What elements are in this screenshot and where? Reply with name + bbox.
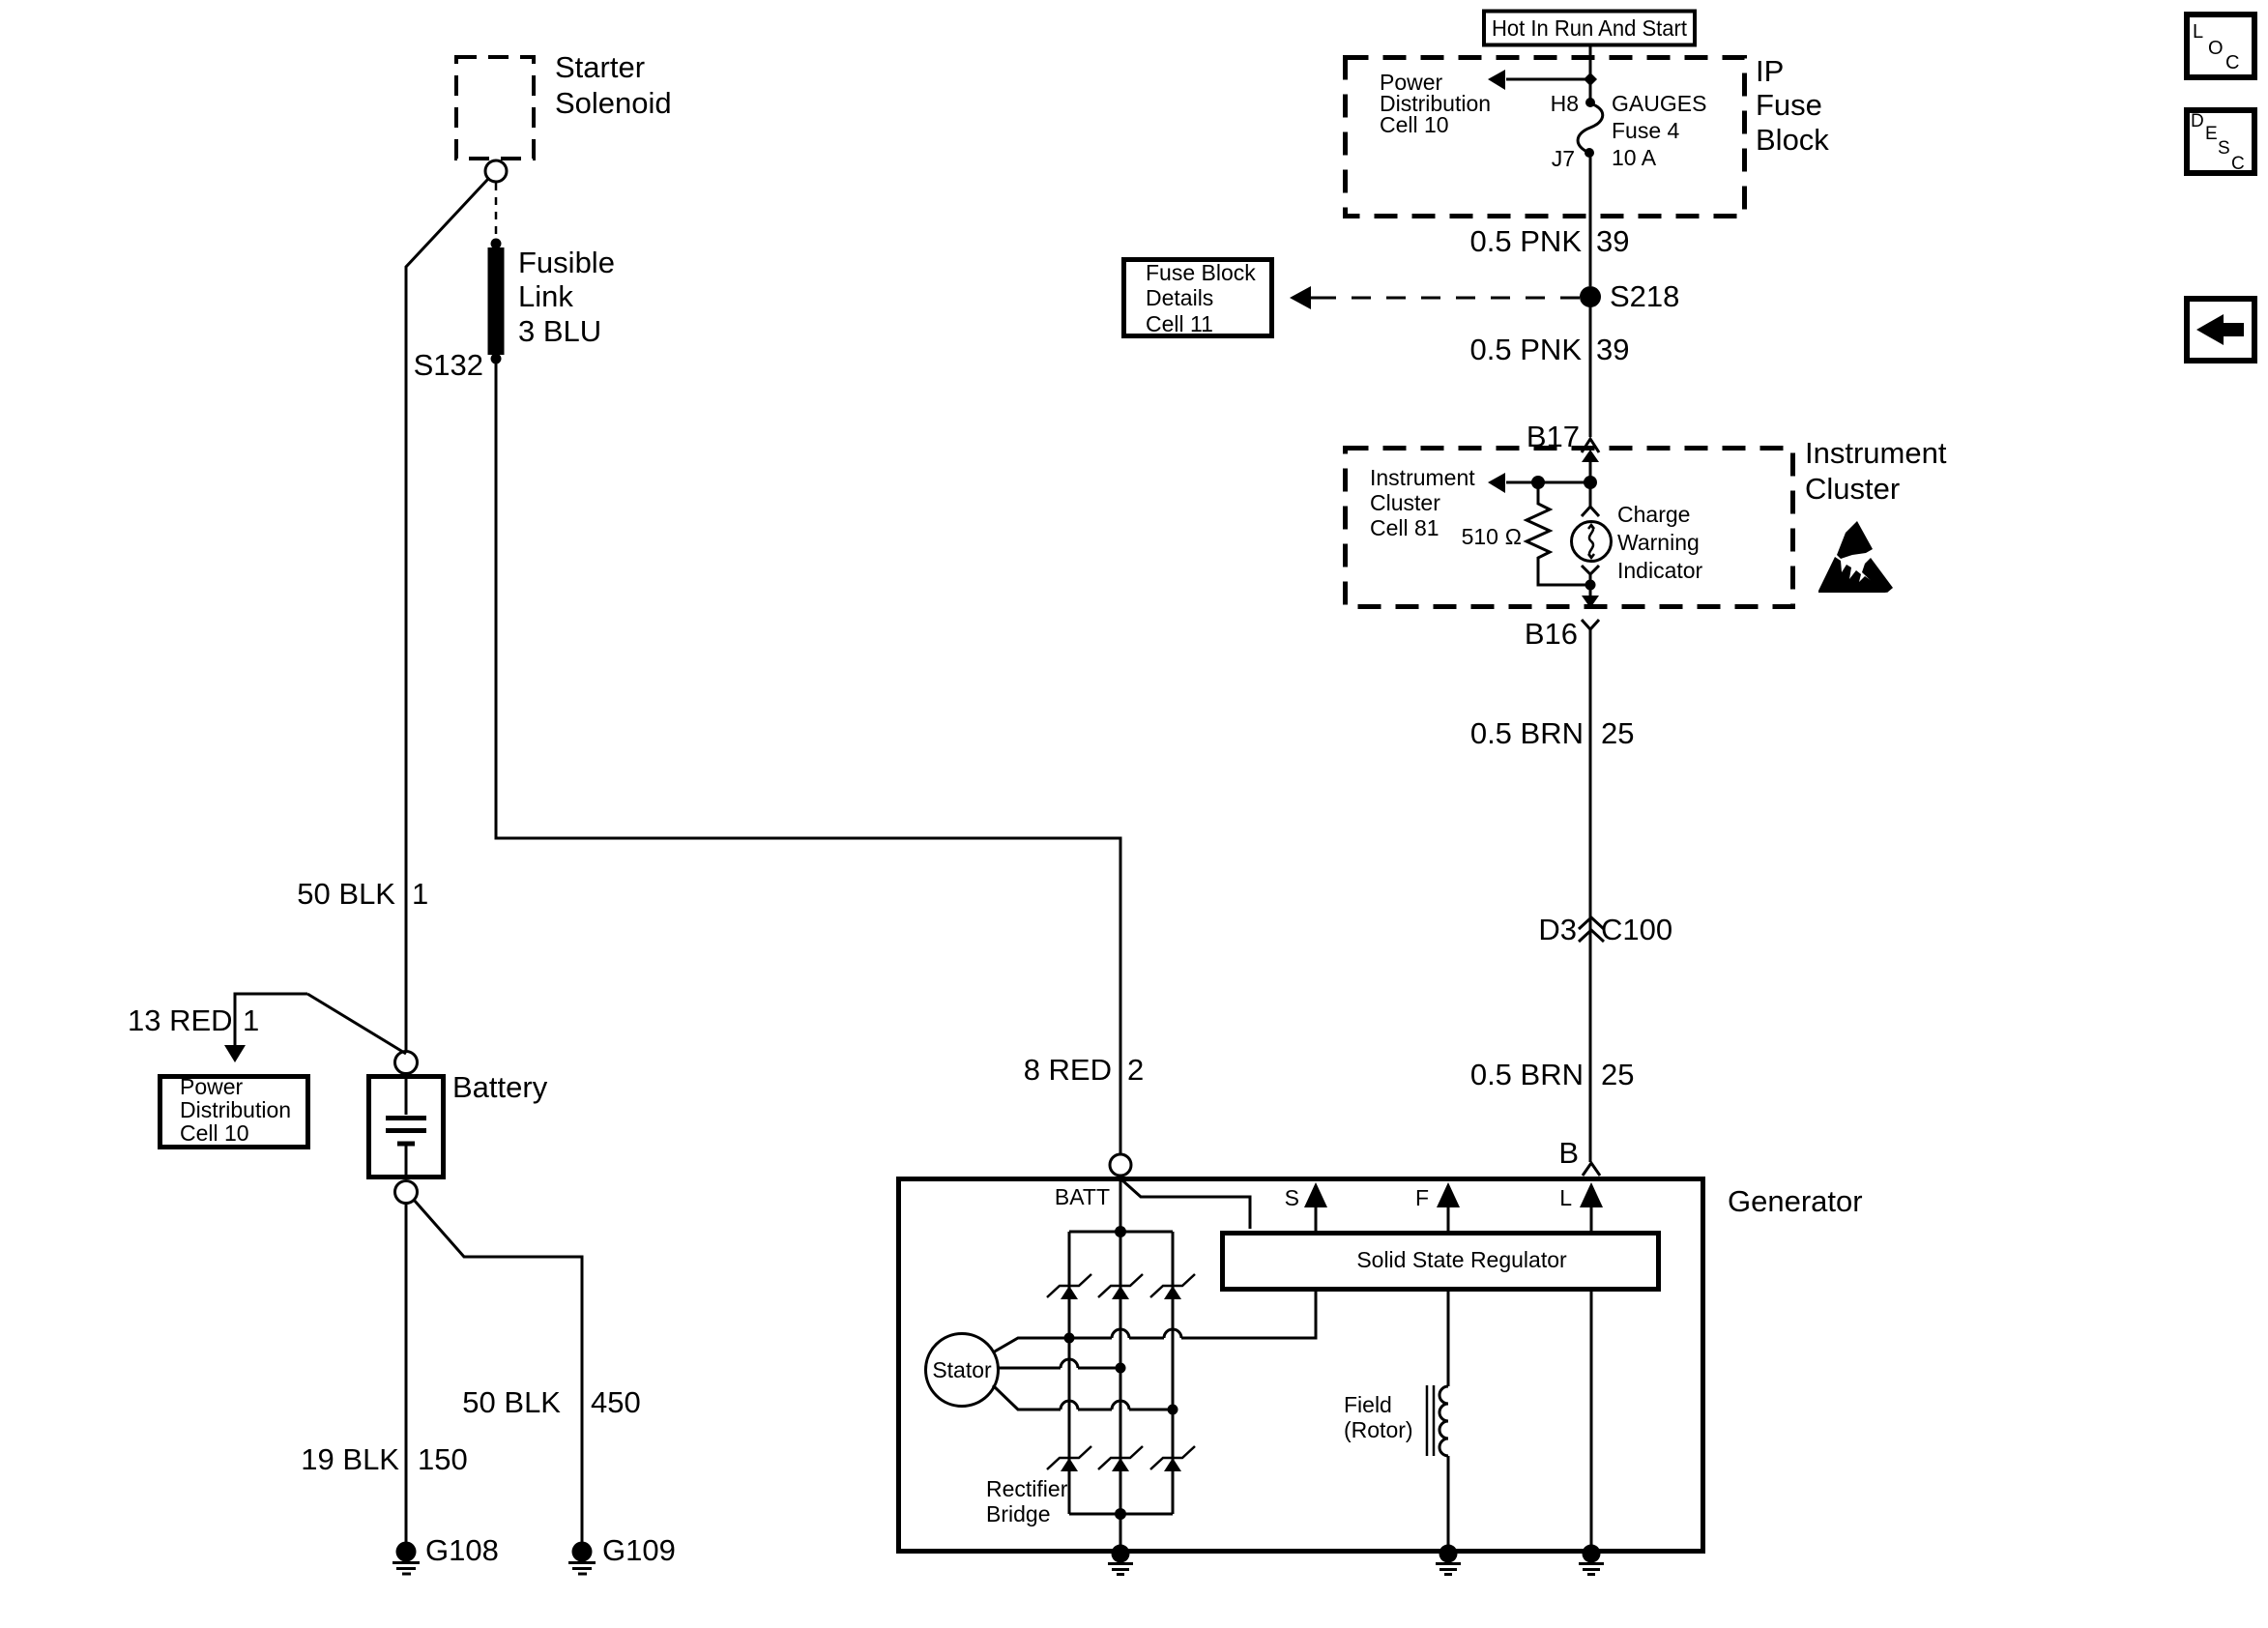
wire label 8 RED 2 bbox=[1024, 1053, 1145, 1087]
junction (phase 2 / centre leg) bbox=[1116, 1363, 1126, 1374]
starter solenoid box bbox=[456, 50, 672, 159]
wire (stator phase 3) bbox=[993, 1385, 1173, 1410]
wire label 0.5 BRN 25 (upper) bbox=[1470, 716, 1635, 750]
svg-text:Indicator: Indicator bbox=[1617, 558, 1703, 583]
diode D5 bbox=[1098, 1446, 1143, 1471]
svg-text:25: 25 bbox=[1601, 1058, 1634, 1091]
svg-text:Cluster: Cluster bbox=[1805, 472, 1900, 506]
rectifier bridge rails bbox=[1069, 1232, 1173, 1514]
IP fuse block box bbox=[1346, 54, 1830, 217]
diode D6 bbox=[1150, 1446, 1195, 1471]
svg-text:L: L bbox=[1559, 1185, 1572, 1210]
junction (phase 3 / right leg) bbox=[1168, 1405, 1178, 1415]
wire (dashed drop from solenoid terminal) bbox=[495, 183, 498, 242]
ground (L) bbox=[1579, 1545, 1604, 1575]
svg-text:E: E bbox=[2205, 124, 2218, 144]
junction node (lamp tap) bbox=[1584, 476, 1597, 489]
svg-text:Rectifier: Rectifier bbox=[986, 1476, 1068, 1501]
ground (rectifier bridge) bbox=[1108, 1545, 1133, 1575]
wire (BATT vertical through rectifier bridge) bbox=[1119, 1176, 1122, 1551]
wire (B17 into cluster) bbox=[1582, 450, 1599, 482]
svg-text:39: 39 bbox=[1596, 224, 1629, 258]
svg-text:Charge: Charge bbox=[1617, 502, 1690, 527]
node S132 bbox=[414, 348, 502, 382]
LOC button bbox=[2187, 15, 2254, 77]
pin B16 bbox=[1525, 617, 1599, 651]
diode D2 bbox=[1098, 1274, 1143, 1299]
rectifier bridge label bbox=[986, 1476, 1068, 1526]
pin F bbox=[1415, 1182, 1460, 1231]
svg-text:C: C bbox=[2225, 52, 2239, 73]
svg-text:50 BLK: 50 BLK bbox=[297, 877, 395, 911]
svg-text:Bridge: Bridge bbox=[986, 1501, 1050, 1526]
wire (S132 to generator BATT, 8 RED) bbox=[496, 363, 1120, 1153]
ground (field) bbox=[1436, 1545, 1461, 1575]
battery negative terminal bbox=[395, 1181, 418, 1204]
svg-text:39: 39 bbox=[1596, 333, 1629, 366]
solid state regulator U1 bbox=[1223, 1234, 1659, 1290]
svg-text:0.5 PNK: 0.5 PNK bbox=[1470, 224, 1583, 258]
instrument cluster box bbox=[1346, 436, 1947, 607]
svg-text:Cluster: Cluster bbox=[1370, 490, 1440, 515]
svg-text:S132: S132 bbox=[414, 348, 483, 382]
svg-text:13 RED: 13 RED bbox=[128, 1003, 233, 1037]
svg-text:G108: G108 bbox=[425, 1533, 499, 1567]
connector D3 C100 bbox=[1538, 913, 1672, 946]
svg-text:Instrument: Instrument bbox=[1805, 436, 1947, 470]
svg-text:S: S bbox=[2218, 138, 2230, 159]
junction node (lamp/resistor join) bbox=[1585, 580, 1596, 591]
svg-text:Details: Details bbox=[1146, 285, 1213, 310]
back arrow button bbox=[2187, 299, 2254, 361]
wire (battery negative to G108, 19 BLK) bbox=[405, 1204, 408, 1543]
svg-text:Power: Power bbox=[180, 1074, 244, 1099]
wire (dashed reference arrow to fuse block details) bbox=[1290, 286, 1580, 309]
svg-text:50 BLK: 50 BLK bbox=[462, 1385, 561, 1419]
svg-text:1: 1 bbox=[243, 1003, 259, 1037]
svg-text:1: 1 bbox=[412, 877, 428, 911]
svg-text:Distribution: Distribution bbox=[180, 1097, 291, 1122]
wire (B16 to generator L, 0.5 BRN) bbox=[1589, 636, 1592, 1162]
svg-text:510 Ω: 510 Ω bbox=[1462, 524, 1522, 549]
svg-text:GAUGES: GAUGES bbox=[1612, 91, 1706, 116]
wire label 50 BLK 450 bbox=[462, 1385, 640, 1419]
generator BATT terminal bbox=[1055, 1154, 1131, 1209]
svg-text:Field: Field bbox=[1344, 1392, 1392, 1417]
svg-text:O: O bbox=[2208, 38, 2224, 59]
wire (cluster output arrow) bbox=[1582, 585, 1599, 608]
wire label 13 RED 1 with arrow to Power Distribution bbox=[128, 994, 406, 1062]
svg-text:F: F bbox=[1415, 1185, 1429, 1210]
wire (solenoid to battery positive, 50 BLK) bbox=[406, 179, 488, 1052]
svg-text:8 RED: 8 RED bbox=[1024, 1053, 1112, 1087]
svg-text:Hot In Run And Start: Hot In Run And Start bbox=[1492, 15, 1688, 41]
pin B (generator) bbox=[1558, 1136, 1600, 1176]
svg-text:0.5 BRN: 0.5 BRN bbox=[1470, 716, 1584, 750]
svg-text:0.5 BRN: 0.5 BRN bbox=[1470, 1058, 1584, 1091]
svg-text:B16: B16 bbox=[1525, 617, 1578, 651]
svg-text:Solid State Regulator: Solid State Regulator bbox=[1356, 1247, 1567, 1272]
svg-text:19 BLK: 19 BLK bbox=[301, 1442, 399, 1476]
svg-text:Stator: Stator bbox=[932, 1357, 992, 1382]
svg-text:J7: J7 bbox=[1552, 146, 1575, 171]
hot in run and start box bbox=[1484, 12, 1695, 45]
svg-text:Fuse Block: Fuse Block bbox=[1146, 260, 1256, 285]
wire label 50 BLK 1 bbox=[297, 877, 428, 911]
wire (stator phase 2) bbox=[998, 1359, 1120, 1368]
instrument cluster cell 81 reference bbox=[1370, 465, 1475, 540]
wire (fuse output, 0.5 PNK) bbox=[1589, 155, 1592, 286]
svg-text:10 A: 10 A bbox=[1612, 145, 1657, 170]
wire (hot feed into fuse block) bbox=[1589, 46, 1592, 101]
pin J7 bbox=[1552, 146, 1594, 171]
svg-text:150: 150 bbox=[418, 1442, 468, 1476]
svg-text:G109: G109 bbox=[602, 1533, 676, 1567]
svg-text:IP: IP bbox=[1756, 54, 1784, 88]
svg-text:25: 25 bbox=[1601, 716, 1634, 750]
wire (battery negative to G109, 50 BLK) bbox=[414, 1200, 582, 1543]
ground G108 bbox=[393, 1533, 499, 1574]
resistor 510 ohm bbox=[1462, 482, 1585, 585]
svg-text:Cell 11: Cell 11 bbox=[1146, 311, 1213, 336]
wire (L through generator) bbox=[1590, 1292, 1593, 1551]
pin B17 bbox=[1527, 420, 1599, 453]
svg-text:B: B bbox=[1558, 1136, 1579, 1170]
junction (phase 1 / left leg) bbox=[1064, 1333, 1075, 1344]
wire (stator phase 1 to S sense) bbox=[993, 1292, 1316, 1352]
starter solenoid terminal bbox=[485, 160, 507, 182]
stator winding bbox=[926, 1334, 999, 1407]
diode D4 bbox=[1047, 1446, 1091, 1471]
svg-text:(Rotor): (Rotor) bbox=[1344, 1417, 1413, 1442]
diode D3 bbox=[1150, 1274, 1195, 1299]
svg-text:BATT: BATT bbox=[1055, 1184, 1110, 1209]
svg-text:Fuse: Fuse bbox=[1756, 88, 1822, 122]
svg-text:Starter: Starter bbox=[555, 50, 645, 84]
svg-text:Link: Link bbox=[518, 279, 573, 313]
svg-text:Battery: Battery bbox=[452, 1070, 548, 1104]
svg-text:C: C bbox=[2231, 154, 2245, 174]
field rotor coil bbox=[1344, 1292, 1448, 1551]
fusible link FL 3 BLU bbox=[488, 246, 615, 355]
diode D1 bbox=[1047, 1274, 1091, 1299]
svg-text:Solenoid: Solenoid bbox=[555, 86, 672, 120]
svg-text:450: 450 bbox=[591, 1385, 641, 1419]
wire label 0.5 PNK 39 (upper) bbox=[1470, 224, 1630, 258]
svg-text:Fusible: Fusible bbox=[518, 246, 615, 279]
wire label 0.5 PNK 39 (lower) bbox=[1470, 333, 1630, 366]
svg-text:0.5 PNK: 0.5 PNK bbox=[1470, 333, 1583, 366]
svg-text:Generator: Generator bbox=[1728, 1184, 1863, 1218]
ESD warning symbol bbox=[1818, 521, 1893, 593]
svg-text:D3: D3 bbox=[1538, 913, 1577, 946]
pin H8 bbox=[1551, 91, 1595, 116]
svg-text:3 BLU: 3 BLU bbox=[518, 314, 601, 348]
wire (S218 to instrument cluster, 0.5 PNK) bbox=[1589, 297, 1592, 437]
charge warning indicator lamp bbox=[1572, 482, 1703, 583]
DESC button bbox=[2187, 110, 2254, 174]
pin S bbox=[1285, 1182, 1327, 1231]
svg-text:Instrument: Instrument bbox=[1370, 465, 1475, 490]
wire label 0.5 BRN 25 (lower) bbox=[1470, 1058, 1635, 1091]
node S132 top junction bbox=[491, 239, 502, 249]
svg-text:D: D bbox=[2191, 111, 2204, 131]
svg-text:Fuse 4: Fuse 4 bbox=[1612, 118, 1680, 143]
wire (arrow to power distribution) bbox=[1488, 70, 1597, 90]
svg-text:Block: Block bbox=[1756, 123, 1829, 157]
svg-text:2: 2 bbox=[1127, 1053, 1144, 1087]
wire label 19 BLK 150 bbox=[301, 1442, 467, 1476]
svg-text:Cell 81: Cell 81 bbox=[1370, 515, 1439, 540]
fuse 4 GAUGES 10A bbox=[1578, 91, 1706, 170]
wire (BATT to regulator) bbox=[1122, 1180, 1250, 1229]
svg-text:Warning: Warning bbox=[1617, 530, 1700, 555]
svg-text:C100: C100 bbox=[1601, 913, 1672, 946]
battery B1 bbox=[369, 1070, 548, 1179]
power distribution cell 10 box (left) bbox=[160, 1074, 308, 1148]
ground G109 bbox=[568, 1533, 676, 1574]
junction (bridge bottom) bbox=[1115, 1508, 1126, 1520]
svg-text:H8: H8 bbox=[1551, 91, 1579, 116]
svg-text:Cell 10: Cell 10 bbox=[1380, 112, 1449, 137]
svg-text:S218: S218 bbox=[1610, 279, 1679, 313]
svg-text:Cell 10: Cell 10 bbox=[180, 1120, 249, 1146]
battery positive terminal bbox=[395, 1052, 418, 1074]
pin L bbox=[1559, 1182, 1603, 1231]
junction node (resistor tap) bbox=[1531, 476, 1545, 489]
fuse block details cell 11 box bbox=[1124, 260, 1272, 337]
wire (arrow to instrument cluster cell 81) bbox=[1488, 473, 1590, 493]
power distribution cell 10 reference (in fuse block) bbox=[1380, 70, 1491, 137]
svg-text:S: S bbox=[1285, 1185, 1299, 1210]
svg-text:L: L bbox=[2193, 21, 2203, 43]
generator box bbox=[899, 1179, 1863, 1552]
junction (bridge top) bbox=[1115, 1226, 1126, 1237]
node S218 bbox=[1580, 279, 1679, 313]
